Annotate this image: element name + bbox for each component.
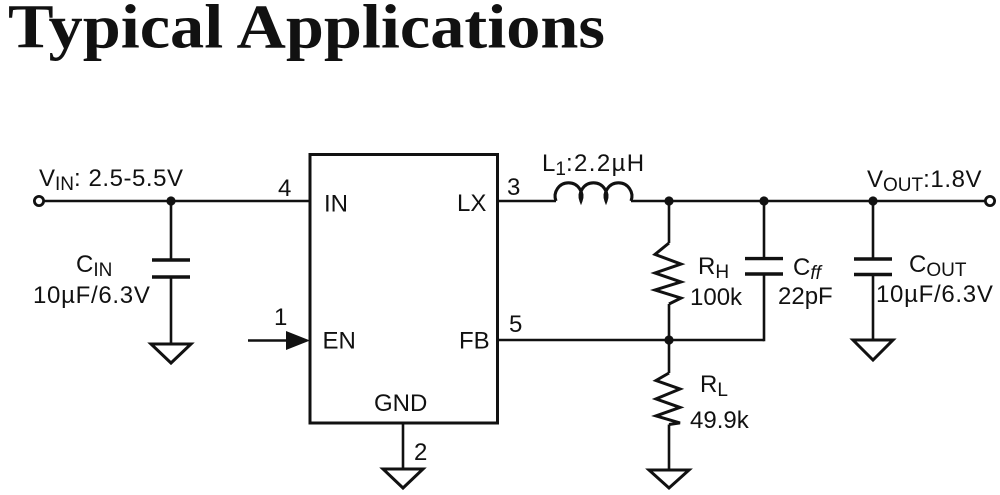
wire RL bottom lead [668, 425, 671, 471]
svg-text:FB: FB [459, 328, 490, 355]
wire Cff top lead [763, 201, 766, 259]
wire COUT top lead [872, 201, 875, 259]
svg-text:3: 3 [507, 174, 520, 201]
wire output rail [631, 200, 985, 203]
IC U1 body [310, 155, 498, 424]
inductor L1 [555, 183, 632, 201]
wire COUT bottom lead [872, 275, 875, 341]
junction FB node [664, 335, 673, 344]
svg-text:10µF/6.3V: 10µF/6.3V [876, 281, 994, 308]
resistor RL [656, 373, 680, 425]
svg-text:Typical Applications: Typical Applications [8, 0, 605, 62]
wire EN input with arrowhead [248, 339, 292, 342]
junction at Cff [759, 196, 768, 205]
svg-text:EN: EN [323, 328, 356, 355]
svg-text:LX: LX [457, 190, 486, 217]
wire input rail [44, 200, 310, 203]
ground RL [649, 470, 689, 488]
wire GND pin lead [402, 423, 405, 469]
resistor RH [655, 243, 681, 304]
svg-text:2: 2 [414, 439, 427, 466]
wire CIN bottom lead [170, 277, 173, 344]
wire RH top lead [668, 201, 671, 243]
svg-text:10µF/6.3V: 10µF/6.3V [33, 282, 151, 309]
ground CIN [151, 344, 191, 363]
wire LX to inductor [498, 200, 557, 203]
junction input node [166, 196, 175, 205]
ground IC GND [383, 469, 423, 488]
capacitor CIN [152, 260, 190, 277]
wire Cff bottom lead [763, 274, 766, 341]
wire FB rail [498, 339, 765, 342]
junction at COUT [868, 196, 877, 205]
wire RH bottom lead [668, 304, 671, 340]
ground COUT [853, 340, 893, 360]
capacitor Cff [745, 259, 783, 274]
svg-text:49.9k: 49.9k [690, 407, 750, 434]
node VIN input terminal [34, 196, 43, 205]
svg-text:4: 4 [278, 175, 291, 202]
wire CIN top lead [170, 201, 173, 260]
svg-text:22pF: 22pF [778, 283, 833, 310]
svg-text:1: 1 [274, 304, 287, 331]
svg-text:5: 5 [509, 311, 522, 338]
svg-text:IN: IN [324, 191, 348, 218]
wire RL top lead [668, 340, 671, 373]
capacitor COUT [854, 259, 892, 275]
svg-text:100k: 100k [690, 284, 743, 311]
svg-text:GND: GND [374, 390, 427, 417]
junction LX node at RH [664, 196, 673, 205]
node VOUT output terminal [985, 196, 994, 205]
